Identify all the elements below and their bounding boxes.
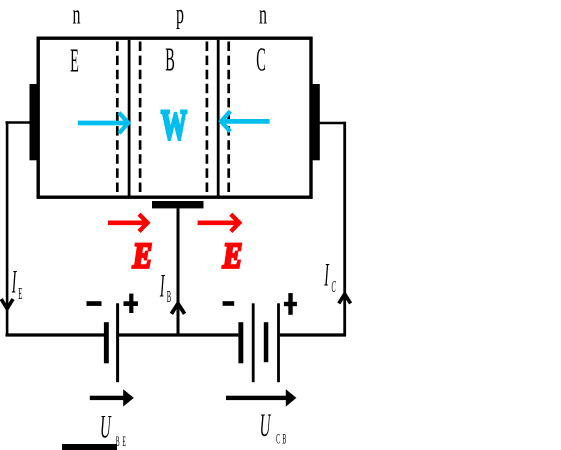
arrow U_BE direction xyxy=(90,389,134,406)
battery B1 plus sign xyxy=(124,294,138,313)
cyan arrow into B-C junction xyxy=(221,111,269,131)
right electrode (collector contact) xyxy=(312,84,320,160)
battery B1 negative plate (short) xyxy=(104,322,109,363)
battery B2 plate 3 (short) xyxy=(264,322,269,362)
depletion edge dashed line (E side) xyxy=(116,42,119,197)
arrowhead I_B (up) xyxy=(171,304,184,314)
transistor body box xyxy=(38,38,311,197)
red arrow E-field right xyxy=(198,214,240,231)
svg-text:I: I xyxy=(324,257,330,294)
battery B1 minus sign xyxy=(87,301,102,306)
battery B2 plate 1 (short) xyxy=(238,322,243,363)
svg-text:U: U xyxy=(260,406,272,443)
svg-text:E: E xyxy=(70,42,79,80)
wire: base vertical xyxy=(177,208,180,336)
svg-text:n: n xyxy=(259,0,267,31)
svg-text:n: n xyxy=(73,0,81,31)
battery B1 positive plate (long) xyxy=(116,303,119,382)
battery B2 minus sign xyxy=(223,301,235,306)
battery B2 plate 4 (long) xyxy=(277,303,280,382)
E-B junction solid line xyxy=(128,40,131,196)
svg-text:C: C xyxy=(256,40,266,78)
wire: left vertical xyxy=(6,121,9,336)
svg-text:E: E xyxy=(132,237,153,276)
svg-text:B: B xyxy=(282,432,286,448)
battery B2 plate 2 (long) xyxy=(252,303,255,382)
B-C junction solid line xyxy=(217,40,220,196)
base contact bar xyxy=(152,201,204,208)
battery B2 plus sign xyxy=(284,293,297,315)
wire: bottom middle segment xyxy=(119,333,238,336)
svg-text:I: I xyxy=(11,264,17,301)
wire: bottom left segment xyxy=(6,333,105,336)
svg-text:E: E xyxy=(122,434,126,450)
svg-text:B: B xyxy=(167,287,171,305)
depletion edge dashed line (B left) xyxy=(139,42,142,197)
svg-text:C: C xyxy=(276,432,280,448)
depletion edge dashed line (C side) xyxy=(227,42,230,197)
svg-text:E: E xyxy=(222,237,243,276)
wire: bottom right segment xyxy=(280,333,346,336)
depletion edge dashed line (B right) xyxy=(206,42,209,197)
svg-text:U: U xyxy=(100,408,112,445)
wire: right vertical xyxy=(343,122,346,337)
svg-text:C: C xyxy=(331,278,336,296)
left electrode (emitter contact) xyxy=(30,84,39,160)
svg-text:B: B xyxy=(165,41,175,79)
cyan arrow into E-B junction xyxy=(78,113,128,134)
svg-text:I: I xyxy=(159,268,165,305)
arrowhead I_E (down) xyxy=(1,299,13,309)
arrow U_CB direction xyxy=(226,389,296,406)
wire: collector stub xyxy=(320,122,346,125)
arrowhead I_C (up) xyxy=(339,294,351,303)
svg-text:W: W xyxy=(161,102,187,149)
bottom-left black bar artifact xyxy=(62,444,117,450)
red arrow E-field left xyxy=(108,214,148,231)
svg-text:p: p xyxy=(176,0,184,30)
wire: emitter stub xyxy=(6,121,31,123)
svg-text:E: E xyxy=(18,285,22,303)
